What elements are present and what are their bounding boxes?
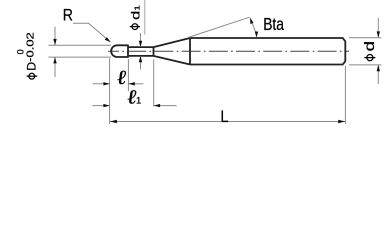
phi d1 stray leader — [144, 0, 146, 35]
dimension L line — [110, 120, 345, 124]
phi d dimension line lower with arrow — [377, 65, 380, 84]
Bta arc bottom arrowhead — [255, 32, 258, 38]
phiD extension line bottom — [48, 56, 111, 58]
phiD tolerance label text — [16, 32, 39, 71]
phiD dimension line upper with arrow — [53, 27, 56, 46]
dimension l line right — [129, 82, 144, 85]
extension line neck end — [153, 60, 155, 107]
phi d extension line bottom — [349, 64, 381, 66]
phi d1 upper arrow — [139, 33, 142, 47]
extension line shank end — [344, 66, 346, 124]
svg-text:L: L — [220, 107, 228, 126]
extension line ball end — [127, 59, 129, 91]
label phi d1 phi symbol — [130, 24, 140, 30]
dimension l1 line left — [93, 104, 110, 107]
Bta angle reference line — [189, 17, 250, 37]
phiD dimension line lower with arrow — [53, 57, 56, 77]
svg-text:Bta: Bta — [263, 14, 284, 34]
label l — [116, 66, 128, 88]
label l1 — [126, 86, 138, 108]
label phi d1 text — [129, 5, 143, 20]
ball nose tip outline — [111, 45, 128, 57]
phi d extension line top — [349, 37, 381, 39]
extension line tool tip — [109, 58, 111, 124]
label phi d text — [362, 41, 377, 51]
taper outline — [154, 38, 191, 65]
phi d1 lower arrow — [139, 56, 142, 70]
svg-text:D: D — [25, 62, 39, 71]
centerline — [108, 50, 349, 52]
dimension l line left — [93, 82, 110, 85]
Bta arc top arrowhead — [250, 18, 254, 25]
svg-text:1: 1 — [136, 96, 141, 107]
leader R — [73, 23, 109, 41]
neck outline — [128, 47, 154, 56]
svg-text:d: d — [362, 41, 377, 51]
dimension l1 line right — [154, 104, 177, 107]
phiD tolerance label phi symbol — [27, 73, 38, 79]
svg-text:0: 0 — [16, 49, 26, 54]
shank outline — [190, 38, 345, 65]
arrowhead R — [105, 37, 111, 42]
phi d dimension line upper with arrow — [377, 18, 380, 38]
svg-text:-0.02: -0.02 — [26, 32, 37, 62]
label phi d phi symbol — [364, 55, 375, 61]
phiD extension line top — [48, 44, 111, 46]
Bta angle arc — [251, 20, 257, 35]
svg-text:R: R — [63, 6, 73, 25]
